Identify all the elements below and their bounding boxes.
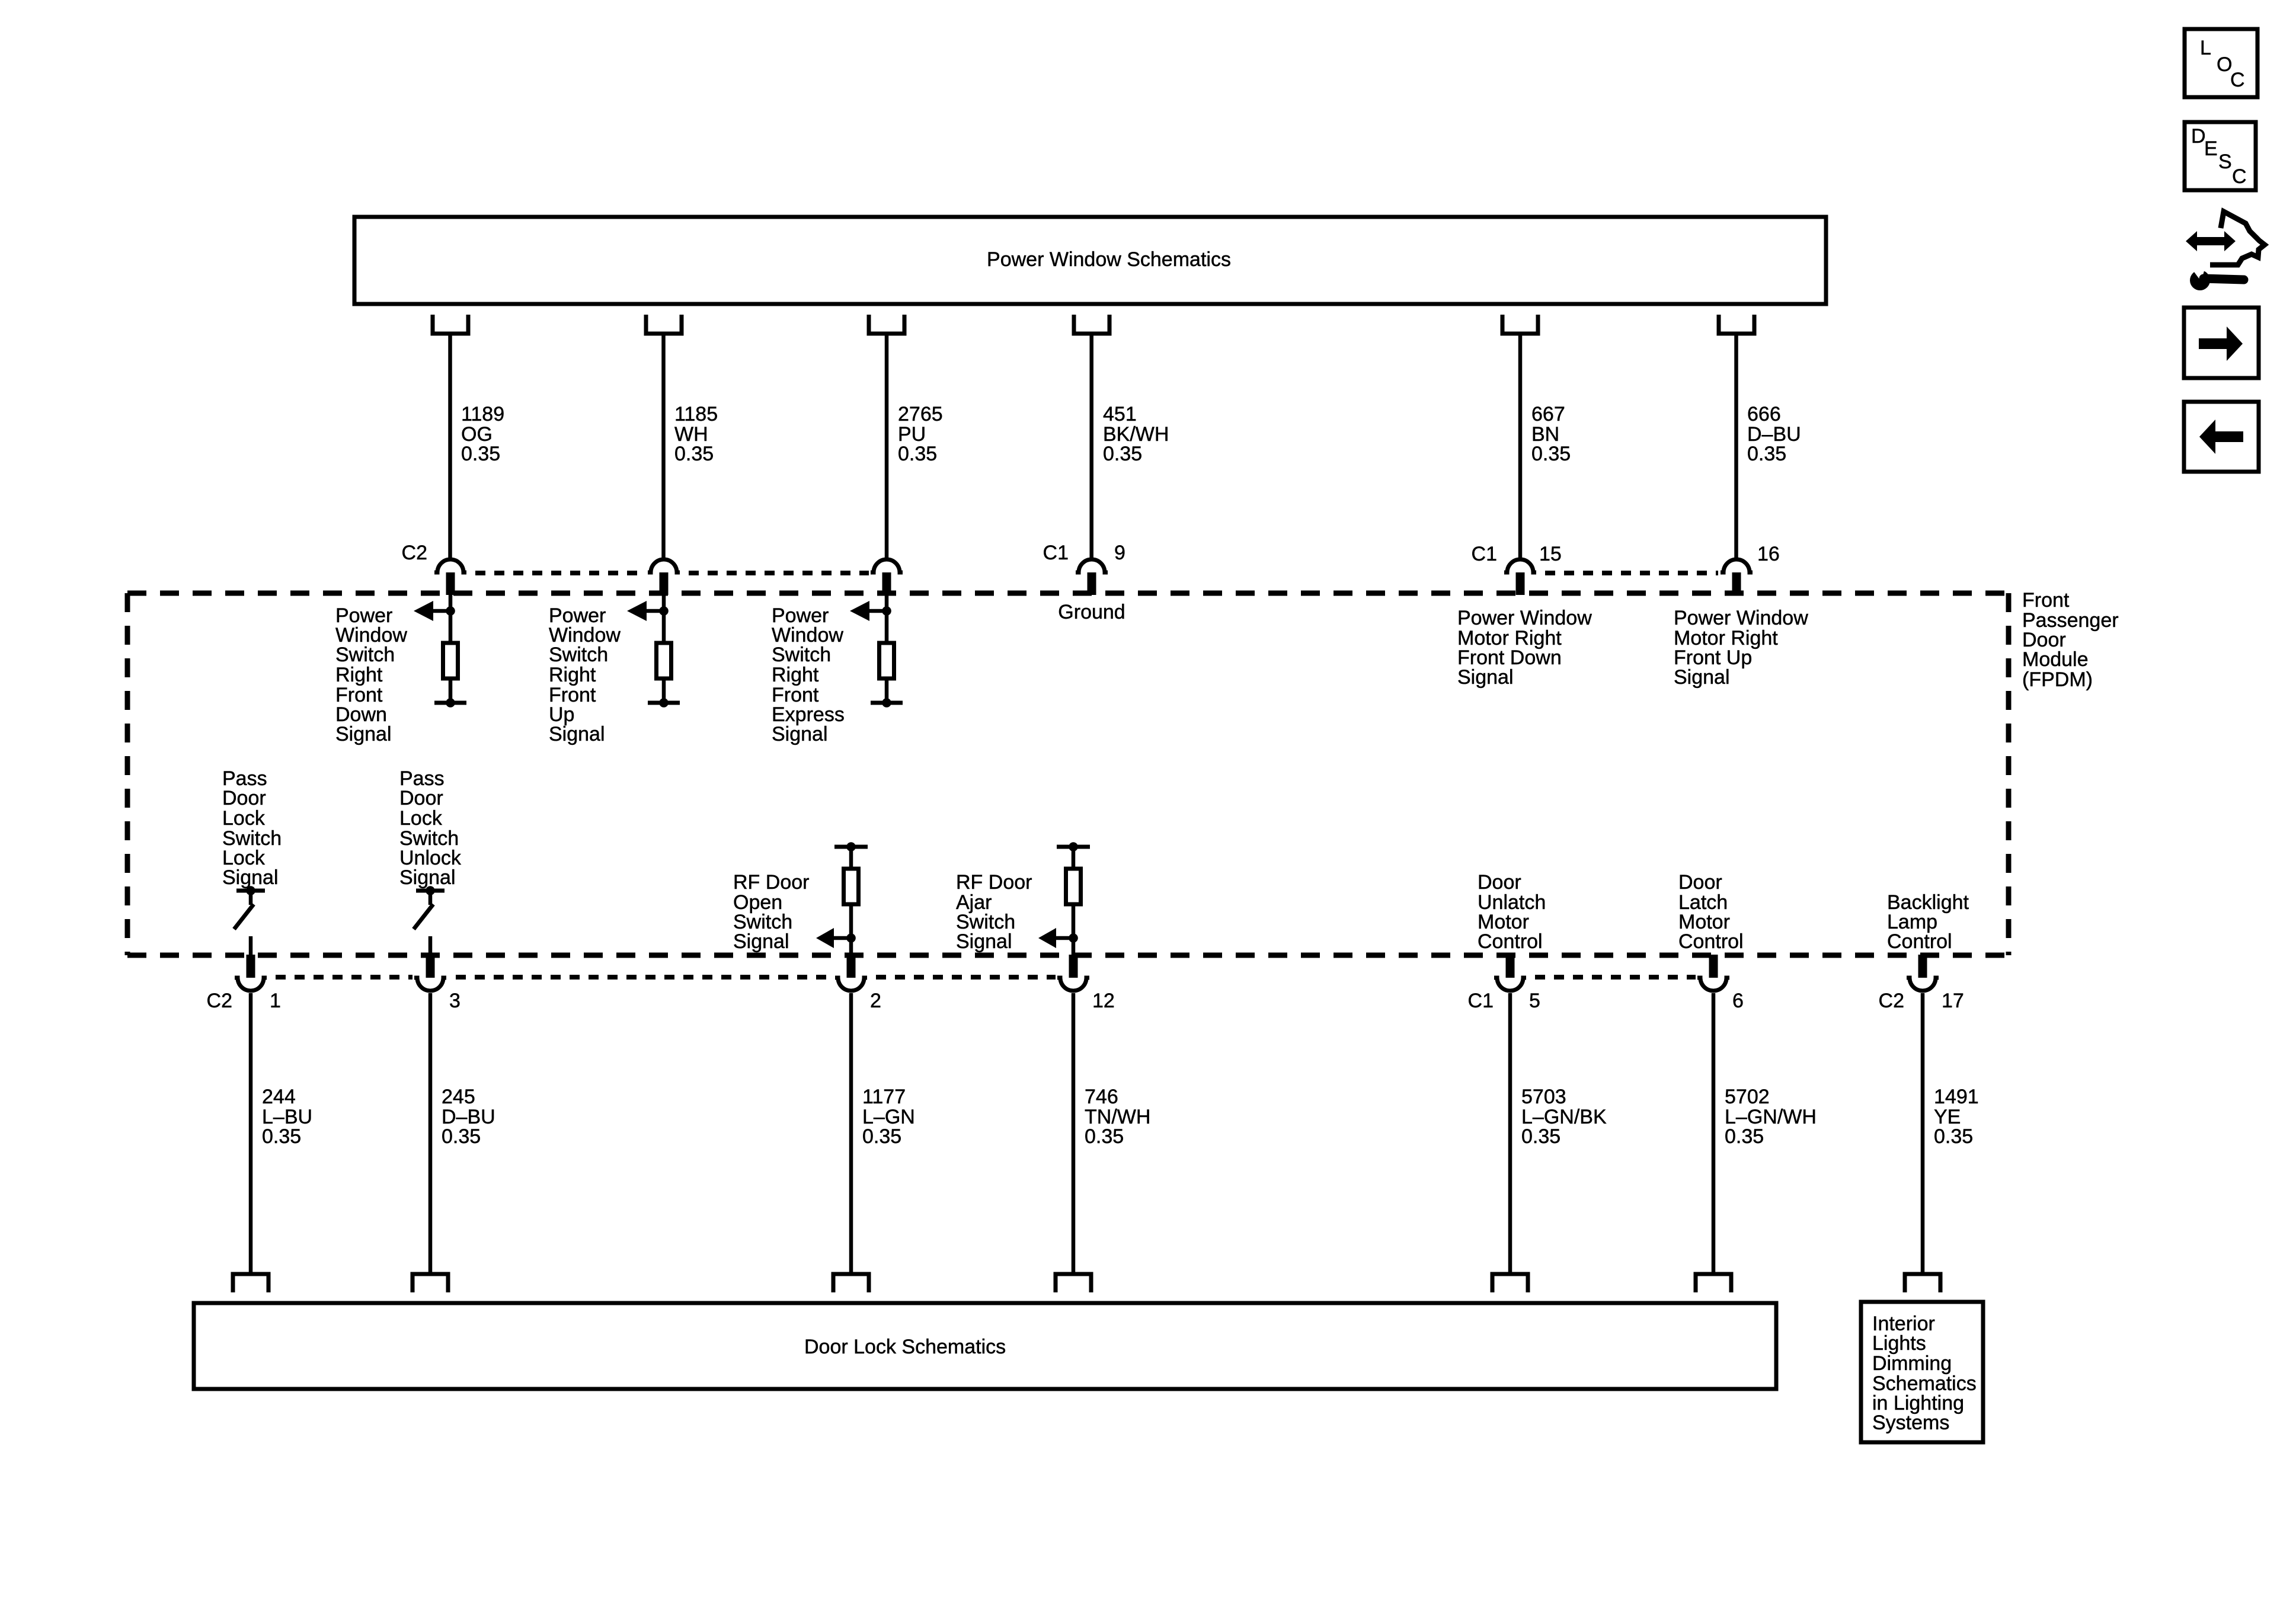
off-page connector bracket from Power Window Schematics at x=760 [433,315,468,334]
connector half-circle and pin (wire 2765) [871,559,903,572]
svg-text:1: 1 [270,990,281,1012]
off-page connector bracket (wire 244) [233,1274,268,1292]
signal arrow (Open) [833,936,851,940]
connector pin and half-circle (pin 5) [1506,955,1515,978]
svg-text:5702: 5702 [1725,1086,1770,1108]
double-headed arrow [2186,231,2236,251]
svg-text:S: S [2218,151,2232,173]
svg-text:C2: C2 [207,990,232,1012]
svg-text:1491: 1491 [1934,1086,1979,1108]
junction dot (Express branch) [882,606,891,616]
wire 5703 L–GN/BK 0.35 [1508,993,1512,1274]
connector dashed link line C2 (bottom, pins 1,3,2,12) [268,975,412,980]
svg-text:C1: C1 [1043,542,1069,564]
connector dashed link line C1 (bottom, pins 5-6) [1528,975,1696,980]
termination dot [446,698,455,708]
svg-text:0.35: 0.35 [1521,1125,1560,1148]
svg-text:5703: 5703 [1521,1086,1566,1108]
svg-text:Front: Front [2022,589,2070,612]
svg-text:Signal: Signal [1457,666,1514,689]
svg-text:Signal: Signal [399,866,456,889]
svg-text:Signal: Signal [772,723,828,745]
off-page connector bracket from Power Window Schematics at x=1842 [1074,315,1109,334]
wire 666 D–BU 0.35 [1734,334,1738,558]
termination dot [659,698,669,708]
resistor (Open switch) [844,869,859,904]
wire to pin [428,936,433,955]
svg-text:746: 746 [1085,1086,1118,1108]
svg-text:Signal: Signal [1674,666,1730,689]
svg-text:Ground: Ground [1058,601,1125,623]
svg-text:Door: Door [1678,871,1722,894]
svg-text:15: 15 [1539,543,1562,565]
svg-text:6: 6 [1732,990,1744,1012]
svg-text:451: 451 [1103,403,1137,425]
svg-text:Power Window: Power Window [1674,607,1808,629]
svg-text:Signal: Signal [549,723,605,745]
wrench [2190,270,2210,290]
svg-text:Control: Control [1478,930,1543,953]
svg-text:Door Lock Schematics: Door Lock Schematics [804,1336,1006,1358]
svg-text:C2: C2 [1879,990,1904,1012]
svg-text:RF Door: RF Door [733,871,809,894]
svg-text:0.35: 0.35 [1531,443,1571,465]
svg-text:L: L [2200,37,2211,59]
svg-text:0.35: 0.35 [461,443,500,465]
wire 244 L–BU 0.35 [249,993,253,1274]
wire 2765 PU 0.35 [885,334,889,558]
wire 245 D–BU 0.35 [428,993,433,1274]
connector half-circle and pin (wire 1189) [434,559,466,572]
svg-text:0.35: 0.35 [1934,1125,1973,1148]
svg-text:Module: Module [2022,648,2089,671]
wire below resistor [849,903,853,955]
svg-text:(FPDM): (FPDM) [2022,668,2093,691]
svg-text:0.35: 0.35 [262,1125,301,1148]
signal arrow (Ajar) [1056,936,1073,940]
signal arrow (Express) [869,609,887,613]
module outline: Front Passenger Door Module (FPDM), dashed [127,591,2009,596]
icon box: DESC [2185,122,2256,190]
termination bar (Ajar) [1057,845,1090,849]
svg-text:1177: 1177 [862,1086,906,1108]
svg-text:1185: 1185 [674,403,718,425]
resistor (Express switch) [880,643,894,678]
connector pin and half-circle (pin 12) [1069,955,1078,978]
wire 667 BN 0.35 [1518,334,1523,558]
junction dot [1069,933,1078,943]
switch: Pass Door Lock Switch Lock [236,889,265,893]
svg-text:245: 245 [442,1086,475,1108]
wire 1185 WH 0.35 [661,334,666,558]
internal branch: Power Window Switch Right Front Up Signal [662,595,666,642]
connector dashed link line C2 (top, pins 1189/1185/2765) [468,571,645,575]
internal branch: Power Window Switch Right Front Express Signal [885,595,889,642]
resistor (Up switch) [657,643,671,678]
switch blade (open) [414,904,433,929]
svg-text:Door: Door [222,787,266,809]
svg-text:2: 2 [870,990,881,1012]
svg-text:Right: Right [335,664,383,686]
svg-text:0.35: 0.35 [1725,1125,1764,1148]
junction dot [846,933,856,943]
box: Interior Lights Dimming Schematics in Lighting Systems [1861,1302,1983,1442]
harness outline [2210,212,2265,265]
svg-text:C2: C2 [402,542,427,564]
connector dashed link line C1 (top, pins 15-16) [1538,571,1718,575]
svg-text:244: 244 [262,1086,296,1108]
wire 746 TN/WH 0.35 [1072,993,1076,1274]
wire below resistor [662,677,666,703]
off-page connector bracket from Power Window Schematics at x=1496 [869,315,904,334]
connector half-circle and pin (wire 451) [1076,559,1108,572]
svg-text:C1: C1 [1472,543,1497,565]
svg-text:C: C [2232,165,2247,188]
box: Power Window Schematics [354,217,1826,304]
svg-text:12: 12 [1092,990,1115,1012]
termination bar (Open) [834,845,868,849]
off-page connector bracket (wire 1177) [833,1274,869,1292]
connector half-circle and pin (wire 667) [1504,559,1536,572]
svg-text:17: 17 [1942,990,1964,1012]
svg-text:Systems: Systems [1872,1411,1949,1434]
svg-text:0.35: 0.35 [1747,443,1786,465]
switch blade (open) [234,904,254,929]
svg-text:RF Door: RF Door [956,871,1032,894]
svg-text:2765: 2765 [898,403,943,425]
svg-text:0.35: 0.35 [674,443,714,465]
svg-text:0.35: 0.35 [442,1125,481,1148]
svg-text:16: 16 [1757,543,1780,565]
svg-text:C1: C1 [1468,990,1494,1012]
svg-text:Signal: Signal [733,930,789,953]
termination dot [882,698,891,708]
svg-text:Signal: Signal [222,866,279,889]
wire 451 BK/WH 0.35 [1089,334,1093,558]
off-page connector bracket from Power Window Schematics at x=2930 [1719,315,1754,334]
svg-text:Control: Control [1678,930,1744,953]
off-page connector bracket (wire 5703) [1492,1274,1528,1292]
svg-text:666: 666 [1747,403,1781,425]
svg-text:E: E [2204,137,2218,160]
svg-text:Lock: Lock [222,807,266,830]
icon box: arrow right [2184,308,2259,378]
icon box: arrow left [2184,402,2259,472]
off-page connector bracket from Power Window Schematics at x=2565 [1502,315,1538,334]
wire below resistor [1072,903,1076,955]
signal arrow (Down) [433,609,450,613]
svg-text:D: D [2191,125,2206,148]
connector half-circle and pin (wire 666) [1721,559,1753,572]
svg-text:Right: Right [549,664,596,686]
box: Door Lock Schematics [194,1303,1776,1389]
off-page connector bracket (wire 5702) [1696,1274,1731,1292]
svg-text:Lock: Lock [399,807,443,830]
off-page connector bracket (wire 245) [412,1274,448,1292]
connector pin and half-circle (pin 3) [426,955,435,978]
wire below resistor [449,677,453,703]
svg-text:C: C [2230,69,2245,91]
svg-text:5: 5 [1529,990,1540,1012]
wire 1491 YE 0.35 [1921,993,1925,1274]
svg-text:Control: Control [1887,930,1952,953]
resistor (Ajar switch) [1066,869,1081,904]
wire to pin [249,936,253,955]
svg-text:Door: Door [1478,871,1521,894]
connector pin and half-circle (pin 2) [847,955,856,978]
svg-text:Power Window: Power Window [1457,607,1592,629]
off-page connector bracket (wire 1491) [1905,1274,1940,1292]
internal branch: Power Window Switch Right Front Down Signal [449,595,453,642]
svg-text:Door: Door [399,787,443,809]
termination bar [434,701,466,705]
svg-text:0.35: 0.35 [898,443,937,465]
svg-text:Power Window Schematics: Power Window Schematics [987,248,1231,271]
svg-text:Signal: Signal [956,930,1012,953]
wire 1177 L–GN 0.35 [849,993,853,1274]
svg-text:3: 3 [449,990,461,1012]
svg-text:0.35: 0.35 [1103,443,1142,465]
svg-text:Signal: Signal [335,723,392,745]
resistor (Down switch) [443,643,458,678]
wire below resistor [885,677,889,703]
junction dot (Up branch) [659,606,669,616]
svg-text:9: 9 [1114,542,1125,564]
svg-text:Lights: Lights [1872,1332,1926,1355]
svg-text:Switch: Switch [335,644,395,666]
termination bar [648,701,680,705]
connector pin and half-circle (pin 6) [1709,955,1718,978]
svg-text:1189: 1189 [461,403,504,425]
svg-text:Right: Right [772,664,819,686]
off-page connector bracket (wire 746) [1056,1274,1091,1292]
svg-text:Switch: Switch [549,644,608,666]
connector half-circle and pin (wire 1185) [648,559,680,572]
signal arrow (Up) [646,609,664,613]
svg-text:Dimming: Dimming [1872,1352,1952,1375]
icon box: LOC [2185,29,2257,97]
switch: Pass Door Lock Switch Unlock [416,889,445,893]
off-page connector bracket from Power Window Schematics at x=1120 [646,315,682,334]
wire 1189 OG 0.35 [448,334,452,558]
svg-text:667: 667 [1531,403,1565,425]
svg-text:0.35: 0.35 [862,1125,901,1148]
junction dot (Down branch) [446,606,455,616]
svg-text:Switch: Switch [772,644,831,666]
connector pin and half-circle (pin 1) [247,955,255,978]
connector pin and half-circle (pin 17) [1918,955,1927,978]
svg-text:0.35: 0.35 [1085,1125,1124,1148]
termination bar [871,701,903,705]
wire 5702 L–GN/WH 0.35 [1712,993,1716,1274]
